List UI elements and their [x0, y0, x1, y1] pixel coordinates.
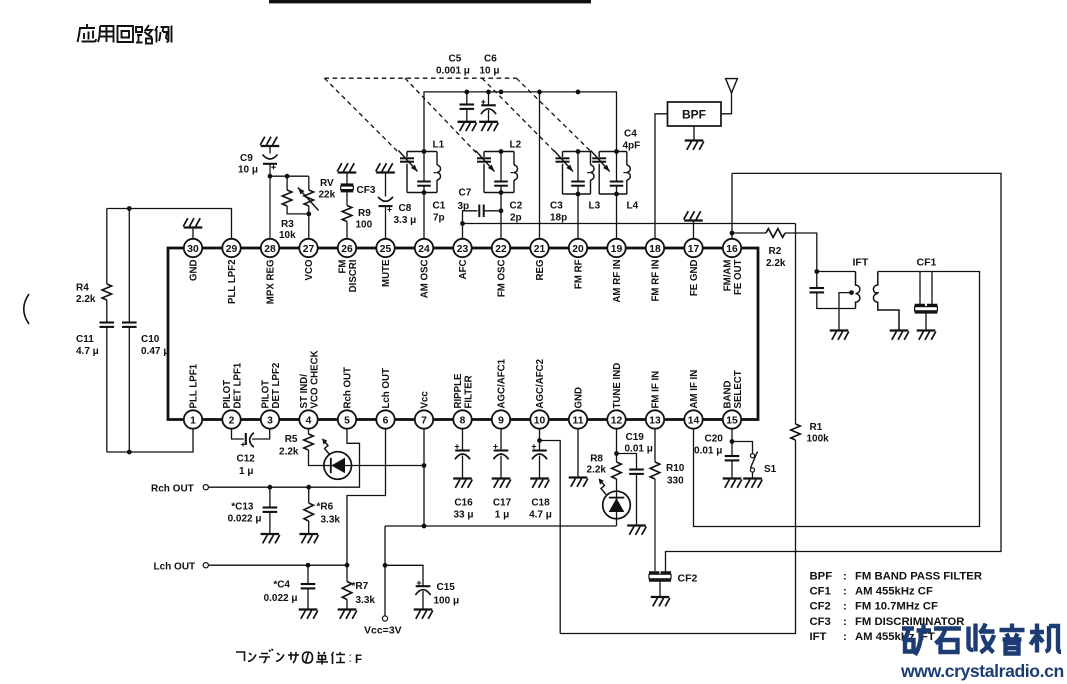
wire bus to C6 [488, 92, 490, 105]
svg-text:C10: C10 [141, 334, 160, 345]
wire C15 to ground [422, 591, 424, 610]
wire pin to C17 [500, 429, 502, 450]
svg-text:26: 26 [341, 244, 353, 255]
svg-text:100 μ: 100 μ [434, 596, 460, 607]
svg-text:7p: 7p [433, 213, 445, 224]
svg-text:*R7: *R7 [352, 581, 369, 592]
wire C4 to ground [307, 588, 309, 609]
junction IFT tap [849, 290, 854, 295]
ground R6 [299, 534, 318, 543]
junction pin21 bus [537, 90, 542, 95]
wire CF1 to AM IF IN [694, 272, 980, 527]
svg-text:29: 29 [226, 244, 238, 255]
wire C16 to ground [462, 456, 464, 479]
svg-text:F: F [355, 654, 362, 666]
junction L2 bus [499, 90, 504, 95]
svg-text::: : [843, 571, 847, 583]
wire AGC return up to pin10 node [540, 441, 561, 634]
svg-text:10 μ: 10 μ [238, 165, 258, 176]
node L1 top [422, 149, 427, 154]
wire CF2 to ground [659, 582, 661, 598]
ground C17 [492, 479, 511, 488]
wire to IFT cap [816, 272, 818, 289]
ceramic filter CF1 [915, 305, 938, 312]
wire ground to C9 [269, 146, 271, 154]
svg-text:100: 100 [356, 220, 373, 231]
wire R7 to ground [346, 600, 348, 610]
svg-text:CF2: CF2 [810, 601, 831, 613]
junction LED Vcc [422, 463, 427, 468]
svg-text:S1: S1 [764, 464, 777, 475]
svg-text:DET LPF1: DET LPF1 [232, 362, 243, 408]
capacitor C17 [493, 444, 508, 459]
wire to C15 [385, 565, 423, 586]
L3 trimmer arrow [554, 151, 573, 172]
svg-text:4.7 μ: 4.7 μ [529, 510, 552, 521]
wire L1 to pin24 [423, 193, 425, 239]
wire CF1 output lead [931, 272, 933, 305]
resistor RV [304, 190, 314, 206]
wire to R8 [616, 454, 618, 463]
svg-text:2: 2 [229, 415, 235, 426]
pin 20 [569, 239, 587, 257]
pin 13 [646, 410, 664, 428]
svg-text:AFC: AFC [458, 260, 469, 280]
capacitor C15 [415, 581, 430, 595]
svg-text:C6: C6 [484, 54, 497, 65]
wire C7 to L2 [484, 210, 501, 212]
ground C13 [261, 534, 280, 543]
pin 16 [723, 239, 741, 257]
wire bus to C5 [466, 92, 468, 105]
svg-text:FM 10.7MHz CF: FM 10.7MHz CF [855, 601, 938, 613]
node L2 top [499, 149, 504, 154]
svg-text:9: 9 [498, 415, 504, 426]
wire to C19 [617, 454, 637, 470]
LED stereo indicator [324, 452, 352, 480]
svg-text:4pF: 4pF [623, 141, 641, 152]
junction C7 node [499, 208, 504, 213]
svg-text:R1: R1 [810, 422, 823, 433]
wire C17 to ground [500, 456, 502, 479]
wire C19 to ground [636, 474, 638, 526]
title 応用回路例 [78, 24, 172, 44]
pin 3 [261, 410, 279, 428]
svg-text:BPF: BPF [682, 108, 706, 122]
svg-text:27: 27 [303, 244, 315, 255]
svg-text:R10: R10 [666, 463, 685, 474]
svg-text:SELECT: SELECT [733, 370, 744, 408]
wire to C10 [128, 209, 130, 323]
junction RV bottom [306, 212, 311, 217]
ground pin30 [183, 218, 202, 227]
scan bar [269, 0, 591, 3]
svg-text:15: 15 [726, 415, 738, 426]
wire S1 to ground [752, 472, 754, 479]
svg-text:FILTER: FILTER [463, 375, 474, 408]
ground CF1 [917, 331, 936, 340]
svg-text:4: 4 [306, 415, 312, 426]
resistor R8 [612, 462, 622, 479]
wire bottom to pin1 [107, 429, 193, 452]
ground CF2 [651, 597, 670, 606]
svg-text:C8: C8 [399, 203, 412, 214]
svg-text:R5: R5 [285, 434, 298, 445]
svg-text:2p: 2p [510, 213, 522, 224]
ground pin11 [569, 478, 588, 487]
svg-text:FM RF IN: FM RF IN [651, 260, 662, 302]
arrow LED light [324, 441, 329, 455]
pin 19 [607, 239, 625, 257]
svg-text:18p: 18p [550, 213, 567, 224]
junction R3 top [285, 174, 290, 179]
svg-text:C7: C7 [459, 188, 472, 199]
wire R6 to ground [308, 521, 310, 534]
pin 1 [184, 410, 202, 428]
wire CF1 input lead [919, 272, 921, 305]
svg-text:19: 19 [611, 244, 623, 255]
pin 23 [453, 239, 471, 257]
svg-text:C5: C5 [449, 54, 462, 65]
svg-text:21: 21 [534, 244, 546, 255]
pin 21 [530, 239, 548, 257]
ground S1 [743, 479, 762, 488]
wire to S1 [732, 442, 753, 454]
node L3 top [576, 149, 581, 154]
wire IFT cap bottom [817, 292, 856, 308]
wire R8 LED to Vcc [616, 479, 618, 526]
junction band select [730, 439, 735, 444]
wire pin18 to BPF [655, 114, 668, 239]
svg-text:MPX REG: MPX REG [266, 260, 277, 305]
wire to R7 [346, 565, 348, 581]
wire IFT primary top [817, 271, 856, 273]
pin 14 [684, 410, 702, 428]
svg-text:24: 24 [418, 244, 430, 255]
dashed gang drop L3 [482, 78, 556, 152]
svg-text:FM RF: FM RF [574, 259, 585, 289]
svg-text:4.7 μ: 4.7 μ [76, 346, 99, 357]
svg-text:AM 455kHz CF: AM 455kHz CF [855, 586, 933, 598]
svg-text:GND: GND [189, 260, 200, 282]
capacitor C10 [122, 323, 137, 327]
ground C5 [458, 122, 477, 131]
svg-text:*R6: *R6 [317, 502, 334, 513]
pin 12 [607, 410, 625, 428]
svg-text:Rch OUT: Rch OUT [151, 484, 194, 495]
resistor R4 [102, 284, 112, 300]
wire R5 to LED [309, 450, 325, 466]
wire to R4 [106, 209, 108, 285]
L4 coil [627, 165, 631, 180]
svg-text:1: 1 [190, 415, 196, 426]
pin 11 [569, 410, 587, 428]
wire C11 to bottom [106, 327, 108, 452]
pin 29 [222, 239, 240, 257]
wire pin4 to R5 [308, 429, 310, 434]
svg-text:5: 5 [344, 415, 350, 426]
watermark logo 矿石收音机 [902, 624, 1061, 656]
svg-text:6: 6 [383, 415, 389, 426]
svg-text::: : [843, 631, 847, 643]
svg-text:DET LPF2: DET LPF2 [271, 363, 282, 409]
wire to RV [308, 176, 310, 190]
resistor R6 [304, 503, 314, 521]
svg-text:Lch OUT: Lch OUT [381, 368, 392, 408]
junction PLL top [127, 206, 132, 211]
wire C8 to pin25 [385, 206, 387, 239]
svg-text:ST IND/: ST IND/ [299, 374, 310, 409]
resistor R9 [342, 206, 352, 222]
svg-text:R8: R8 [590, 454, 603, 465]
svg-text:C19: C19 [626, 432, 645, 443]
svg-text:R3: R3 [281, 219, 294, 230]
wire top bus [424, 92, 617, 152]
svg-text:R9: R9 [358, 208, 371, 219]
svg-text:10 μ: 10 μ [480, 66, 500, 77]
wire IFT to CF1 in [878, 271, 932, 273]
wire pin30 to ground [192, 228, 194, 239]
wire CF1 to ground [925, 314, 927, 331]
svg-text:2.2k: 2.2k [766, 258, 786, 269]
node L4 top [614, 149, 619, 154]
L3 tank box [563, 152, 591, 195]
svg-text:C4: C4 [624, 129, 637, 140]
L3 coil [591, 165, 595, 180]
wire C6 to ground [488, 110, 490, 122]
capacitor C8 [378, 197, 393, 212]
L1 coil [437, 165, 441, 180]
wire pin16 to R2 [732, 232, 766, 234]
svg-text:C11: C11 [76, 334, 94, 345]
node L2 bottom [499, 190, 504, 195]
pin 15 [723, 410, 741, 428]
svg-text:8: 8 [460, 415, 466, 426]
wire pin to C16 [462, 429, 464, 450]
wire AFC down to R1 [795, 224, 797, 425]
ground C16 [453, 479, 472, 488]
pin 7 [415, 410, 433, 428]
svg-text:www.crystalradio.cn: www.crystalradio.cn [900, 661, 1064, 681]
ground C18 [530, 479, 549, 488]
svg-text:30: 30 [187, 244, 199, 255]
ground IFT secondary [890, 331, 909, 340]
wire pin2 to C12 [232, 429, 244, 439]
dashed gang drop L2 [405, 78, 476, 152]
junction C9 node [268, 174, 273, 179]
svg-text:CF2: CF2 [678, 573, 698, 585]
capacitor C12 [241, 433, 254, 448]
wire AFC line [463, 223, 796, 225]
L2 trimmer arrow [476, 151, 495, 172]
wire R10 to CF2 [654, 479, 656, 571]
junction C5 bus [464, 90, 469, 95]
ground CF3 [337, 163, 356, 172]
svg-text:AM IF IN: AM IF IN [689, 370, 700, 409]
svg-text:AM OSC: AM OSC [420, 259, 431, 298]
wire R9 to pin26 [346, 222, 348, 239]
svg-text:*C13: *C13 [231, 502, 254, 513]
resistor R2 [766, 229, 785, 238]
pin 9 [492, 410, 510, 428]
svg-text:R2: R2 [769, 246, 782, 257]
pin 26 [338, 239, 356, 257]
wire to C13 [269, 487, 271, 507]
svg-text:PILOT: PILOT [260, 380, 271, 409]
svg-text:CF3: CF3 [357, 185, 376, 196]
block BPF [668, 102, 722, 126]
junction AFC tap [460, 221, 465, 226]
ceramic filter CF2 [649, 573, 671, 581]
svg-text:L3: L3 [589, 201, 601, 212]
svg-text:FE OUT: FE OUT [733, 259, 744, 295]
terminal Lch OUT [203, 563, 208, 568]
ground C19 [627, 526, 646, 535]
svg-text:1 μ: 1 μ [495, 510, 509, 521]
inductor IFT primary [856, 272, 860, 309]
svg-text:C17: C17 [493, 498, 512, 509]
wire IFT tap to ground [839, 293, 852, 331]
wire pin5 Rch OUT [208, 429, 359, 487]
pin 27 [299, 239, 317, 257]
svg-text:18: 18 [649, 244, 661, 255]
wire to R3 [286, 176, 288, 190]
junction R6 [306, 485, 311, 490]
capacitor C18 [532, 444, 547, 459]
svg-text:12: 12 [611, 415, 623, 426]
svg-text:IFT: IFT [853, 257, 869, 269]
wire ground to C8 [385, 173, 387, 197]
svg-text:25: 25 [380, 244, 392, 255]
capacitor C11 [100, 323, 115, 327]
node L4 bottom [614, 192, 619, 197]
svg-text:FM: FM [337, 260, 348, 274]
junction tune node [614, 451, 619, 456]
wire pin11 to ground [577, 429, 579, 478]
junction Vcc rail [422, 524, 427, 529]
wire pin6 Lch OUT [208, 429, 385, 565]
svg-text:0.01 μ: 0.01 μ [694, 446, 722, 457]
junction C6 bus [486, 90, 491, 95]
wire L4 to pin19 [616, 194, 618, 239]
ground C15 [414, 610, 433, 619]
svg-text:FM IF IN: FM IF IN [651, 371, 662, 409]
LED tune indicator [603, 491, 631, 519]
capacitor C9 [263, 155, 278, 170]
capacitor C6 [481, 100, 496, 114]
svg-text:0.022 μ: 0.022 μ [228, 514, 262, 525]
L1 trimmer arrow [399, 151, 418, 172]
pin 24 [415, 239, 433, 257]
wire pin12 down [616, 429, 618, 454]
note capacitor unit [236, 649, 351, 665]
dashed gang drop L4 [516, 78, 592, 152]
svg-text:FM DISCRIMINATOR: FM DISCRIMINATOR [855, 616, 964, 628]
svg-text:C9: C9 [240, 153, 253, 164]
svg-text:C16: C16 [454, 498, 473, 509]
wire L3 to pin20 [577, 194, 579, 239]
svg-text:VCO CHECK: VCO CHECK [309, 350, 320, 408]
svg-text:16: 16 [726, 244, 738, 255]
wire bus to pin21 [539, 92, 541, 239]
svg-text:0.47 μ: 0.47 μ [141, 346, 169, 357]
ground C8 [376, 163, 395, 172]
wire CF3 to R9 [346, 192, 348, 205]
wire FM IF loop [666, 173, 1002, 571]
ground C6 [479, 122, 498, 131]
svg-text:330: 330 [667, 476, 684, 487]
svg-text:DISCRI: DISCRI [348, 259, 359, 292]
wire to C4 [307, 565, 309, 584]
resistor R7 [342, 582, 352, 600]
svg-text:IFT: IFT [810, 631, 827, 643]
pin 8 [453, 410, 471, 428]
wire C10 to bottom [128, 327, 130, 452]
svg-text:TUNE IND: TUNE IND [612, 363, 623, 409]
ground C4 [299, 610, 318, 619]
svg-text:PLL LPF2: PLL LPF2 [227, 260, 238, 305]
svg-text:17: 17 [688, 244, 700, 255]
wire antenna to BPF [721, 93, 732, 114]
svg-text:CF3: CF3 [810, 616, 831, 628]
junction C15 [383, 563, 388, 568]
wire to R6 [308, 487, 310, 503]
wire RV to pin27 [308, 206, 310, 239]
wire pin to C18 [539, 429, 541, 450]
junction PLL bottom [127, 450, 132, 455]
node L3 bottom [576, 192, 581, 197]
svg-text:GND: GND [574, 387, 585, 409]
junction AGC tap [537, 438, 542, 443]
wire VCO reg top bar [270, 175, 309, 177]
pin 22 [492, 239, 510, 257]
wire pin16 up [731, 173, 733, 238]
L2 tank box [484, 152, 514, 193]
svg-text:2.2k: 2.2k [279, 447, 299, 458]
wire pin13 to R10 [654, 429, 656, 462]
junction C13 [268, 485, 273, 490]
wire R4 to C11 [106, 300, 108, 323]
junction C4 [306, 563, 311, 568]
svg-text:3.3 μ: 3.3 μ [394, 215, 417, 226]
wire to C20 [731, 442, 733, 457]
svg-text:1 μ: 1 μ [239, 466, 253, 477]
pin 28 [261, 239, 279, 257]
wire C13 to ground [269, 512, 271, 534]
svg-text:REG: REG [535, 260, 546, 281]
svg-text::: : [843, 601, 847, 613]
pin 2 [222, 410, 240, 428]
svg-text:C1: C1 [433, 201, 446, 212]
wire pin3 to C12 [252, 429, 270, 439]
pin 17 [684, 239, 702, 257]
svg-text:10: 10 [534, 415, 546, 426]
wire pin29 to PLL filter top [107, 209, 232, 239]
pin 30 [184, 239, 202, 257]
svg-text:PILOT: PILOT [222, 380, 233, 409]
resistor R3 [282, 190, 292, 206]
antenna [726, 79, 738, 93]
svg-text:C15: C15 [437, 582, 456, 593]
ground BPF [685, 141, 704, 150]
wire C5 to ground [466, 109, 468, 122]
svg-text:AM RF IN: AM RF IN [612, 260, 623, 303]
pin 5 [338, 410, 356, 428]
svg-text:0.01 μ: 0.01 μ [625, 444, 653, 455]
wire BPF to ground [693, 126, 695, 141]
wire R1 to AGC return [560, 440, 795, 634]
svg-text:13: 13 [649, 415, 661, 426]
